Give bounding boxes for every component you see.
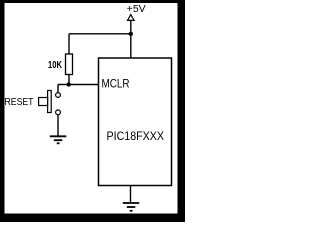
pin label MCLR (102, 77, 130, 91)
microcontroller U1 PIC18FXXX body (99, 58, 172, 186)
pushbutton SW1 actuator cap (39, 98, 48, 106)
border frame (0, 0, 185, 222)
junction dot at +5V branch (129, 32, 133, 36)
ground symbol bottom (123, 203, 140, 211)
label RESET (5, 96, 34, 108)
pushbutton SW1 bottom terminal (56, 110, 61, 115)
pushbutton SW1 top terminal (56, 93, 61, 98)
wire from chip bottom to ground (130, 186, 132, 203)
svg-text:+5V: +5V (127, 4, 146, 15)
power supply arrow symbol (128, 15, 135, 21)
wire vertical from resistor bottom to MCLR net (68, 75, 70, 85)
wire vertical from MCLR net down to switch top terminal (57, 85, 59, 93)
wire horizontal branch to resistor (69, 33, 131, 35)
wire from switch bottom terminal to ground (57, 115, 59, 136)
svg-text:MCLR: MCLR (102, 77, 130, 91)
wire vertical down to resistor top (68, 34, 70, 54)
junction dot on MCLR net (67, 82, 71, 86)
part label PIC18FXXX (107, 129, 165, 143)
svg-text:RESET: RESET (5, 96, 34, 108)
wire vertical from +5V arrow to chip top (130, 21, 132, 59)
node +5V label (127, 4, 146, 15)
svg-text:PIC18FXXX: PIC18FXXX (107, 129, 165, 143)
wire MCLR net horizontal to chip pin (58, 84, 99, 86)
value label 10K (48, 60, 63, 71)
svg-text:10K: 10K (48, 60, 63, 71)
ground symbol left (50, 136, 67, 143)
resistor R1 body (66, 54, 73, 75)
pushbutton SW1 contact bar (48, 91, 52, 113)
